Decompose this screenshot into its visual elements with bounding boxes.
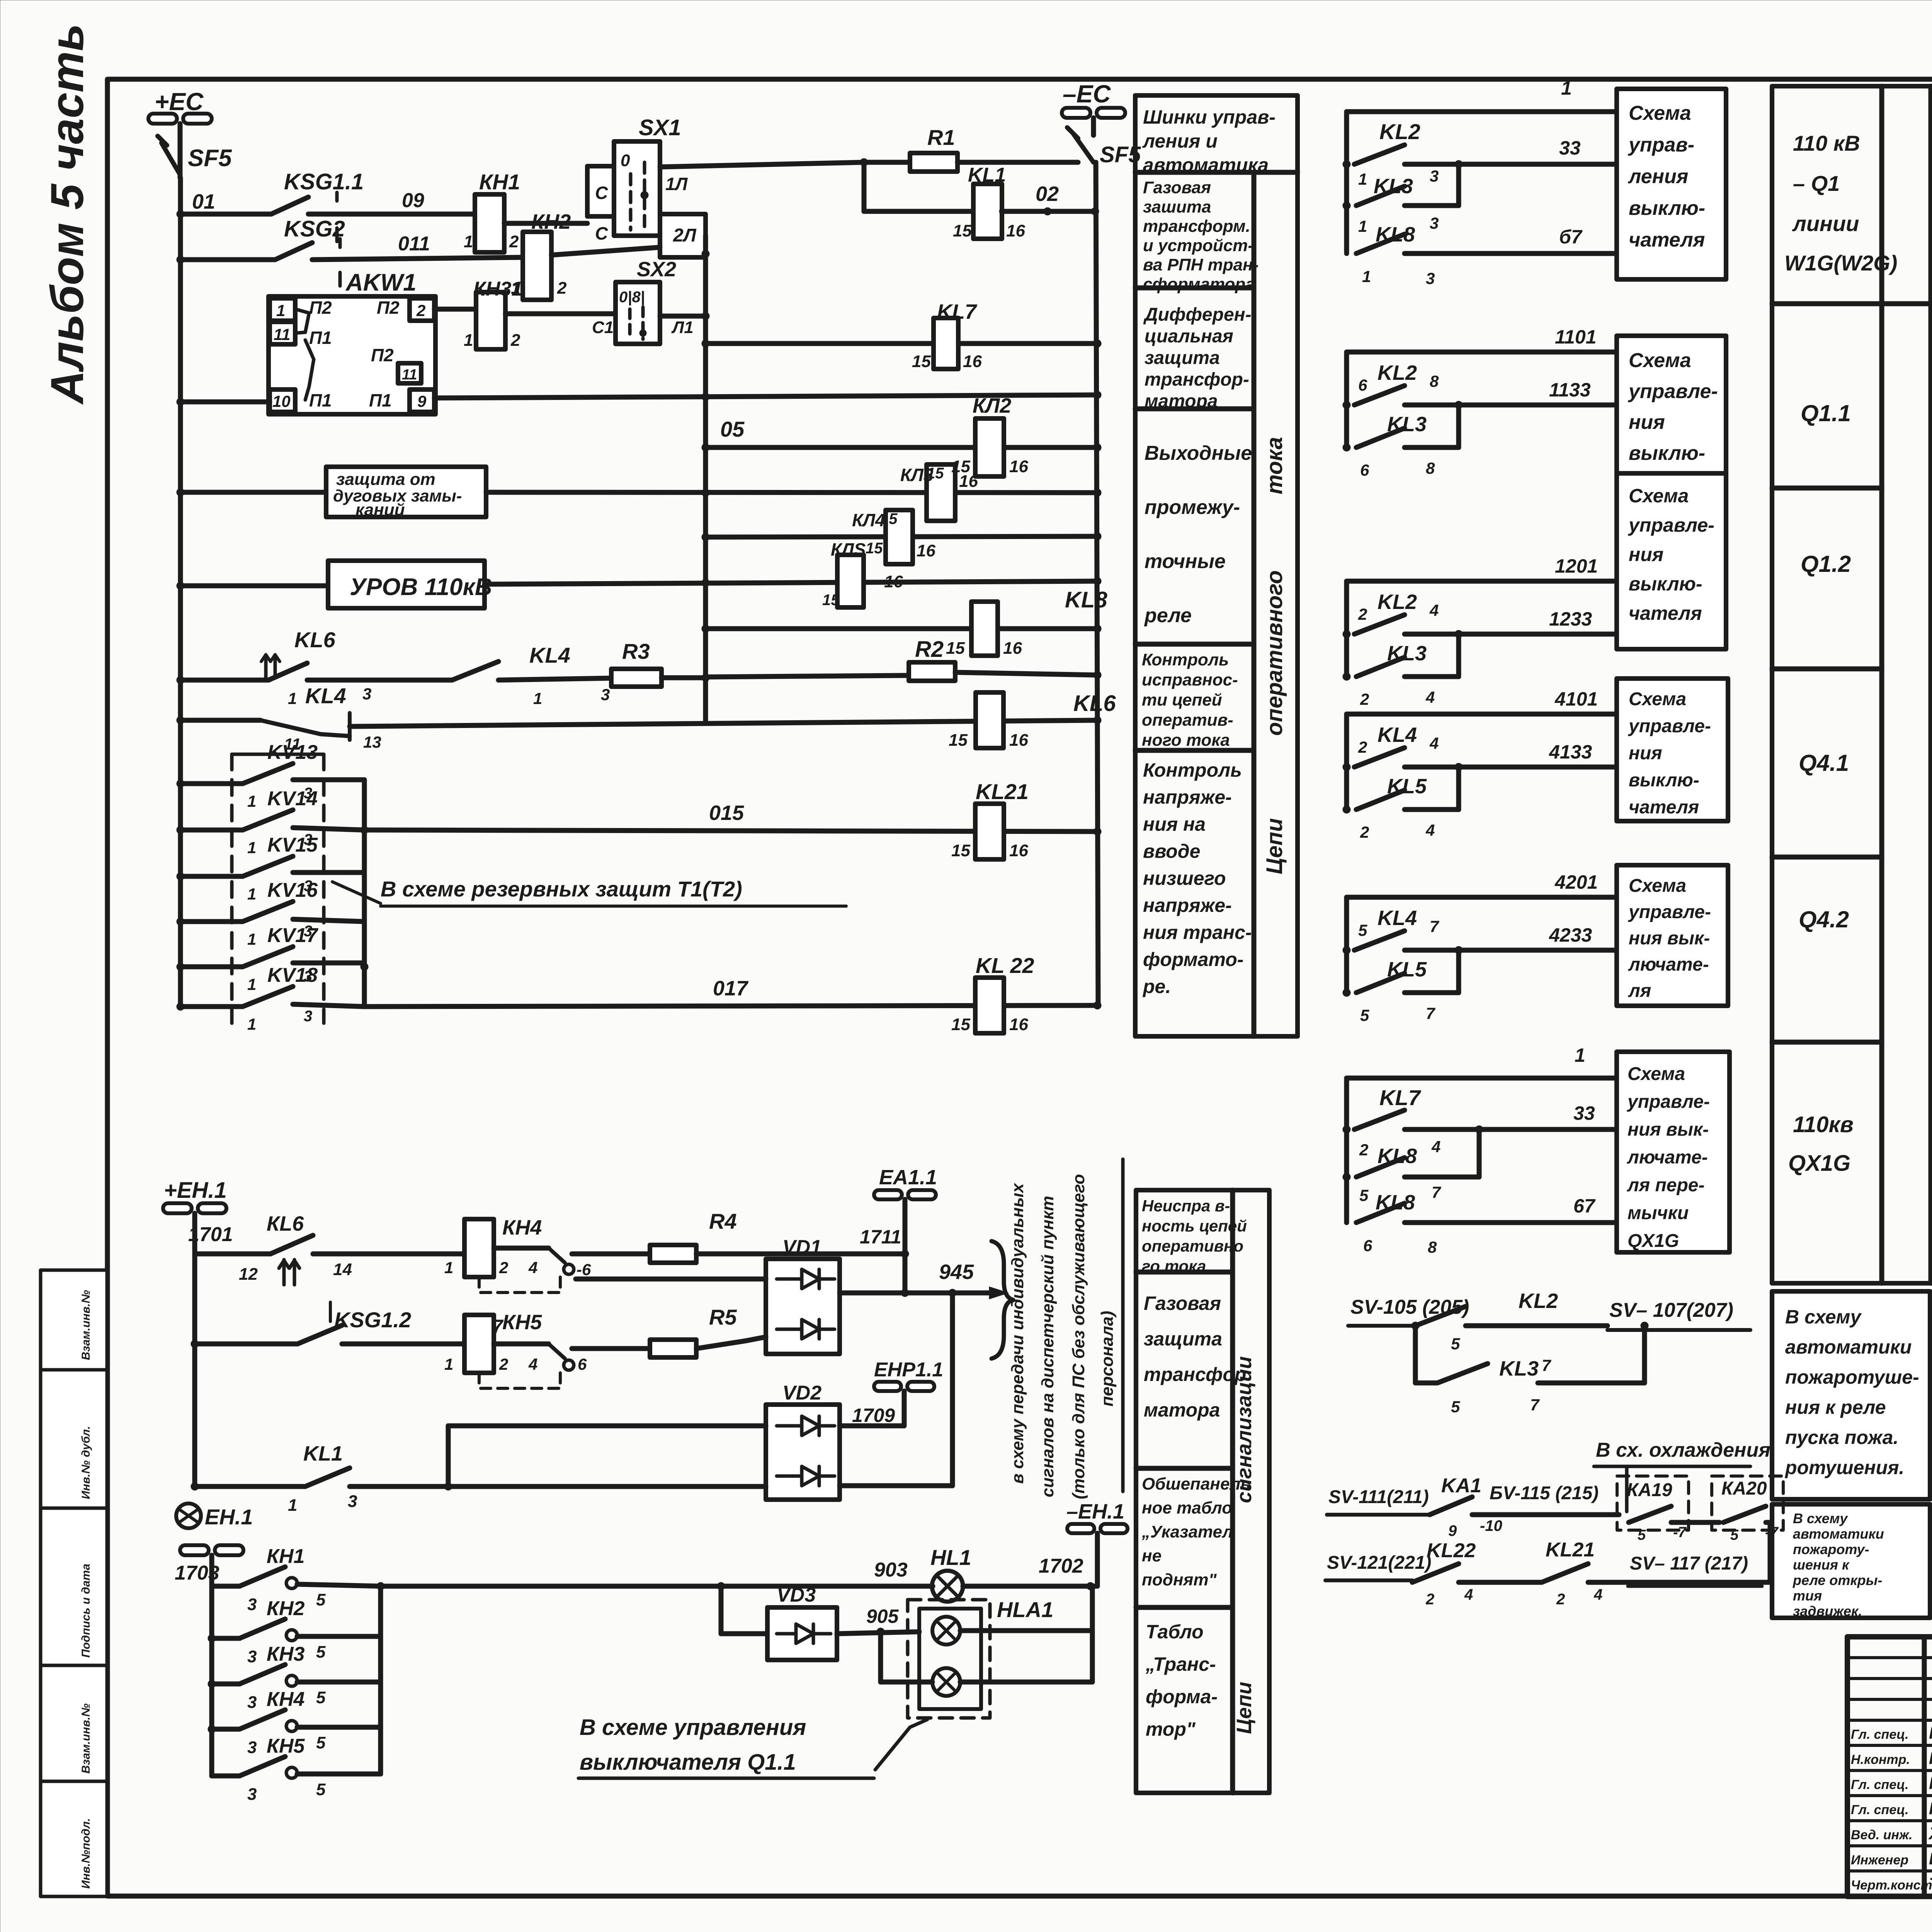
relay coil KL22 bbox=[951, 978, 1028, 1034]
junction rowC bbox=[191, 1340, 199, 1348]
wire row KL6b a bbox=[195, 1252, 270, 1257]
wire VD2 in lower bbox=[448, 1426, 766, 1486]
label 1101 bbox=[1555, 326, 1597, 348]
junction KL4row bus bbox=[702, 533, 709, 541]
wire VD3 drop bbox=[719, 1586, 724, 1634]
svg-text:матора: матора bbox=[1144, 1399, 1220, 1421]
column S cell2 bbox=[1144, 1293, 1246, 1421]
AKW1 terminal 11b bbox=[398, 363, 421, 383]
wire KH31-SX2 bbox=[505, 311, 616, 316]
wire AKW1 out 9 bbox=[434, 395, 1097, 398]
svg-text:Табло: Табло bbox=[1146, 1621, 1204, 1643]
svg-text:Q4.1: Q4.1 bbox=[1799, 750, 1849, 776]
svg-text:Л1: Л1 bbox=[671, 318, 694, 337]
wire row7 c bbox=[498, 678, 611, 680]
svg-text:33: 33 bbox=[1559, 137, 1581, 159]
svg-text:15: 15 bbox=[866, 540, 883, 557]
svg-text:КН1: КН1 bbox=[267, 1545, 304, 1568]
svg-text:11: 11 bbox=[402, 367, 417, 383]
svg-text:KSG1.2: KSG1.2 bbox=[334, 1308, 411, 1332]
junction KL4c rail bbox=[1094, 532, 1101, 540]
svg-text:KL7: KL7 bbox=[937, 300, 978, 323]
svg-text:матора: матора bbox=[1145, 391, 1218, 412]
svg-text:1: 1 bbox=[464, 331, 473, 350]
label SV-105 bbox=[1348, 1296, 1469, 1326]
wire +EC stem bbox=[178, 124, 183, 144]
block защита от дуговых bbox=[326, 467, 486, 519]
svg-text:KL 22: KL 22 bbox=[976, 953, 1034, 978]
pins КН4 b bbox=[247, 1733, 326, 1757]
bus EHP1.1 label bbox=[874, 1359, 943, 1381]
junction 01 bbox=[177, 210, 184, 218]
svg-text:ля пере-: ля пере- bbox=[1627, 1175, 1704, 1196]
svg-text:3: 3 bbox=[304, 1008, 312, 1025]
pins KV15 bbox=[247, 878, 312, 903]
wire EA drop bbox=[903, 1254, 908, 1293]
block SX1 bbox=[614, 141, 660, 236]
label 011 bbox=[398, 233, 430, 255]
wire mid bus bbox=[703, 316, 708, 720]
pins KL6 bbox=[288, 685, 371, 707]
label KL8 g6a bbox=[1378, 1145, 1417, 1168]
junction row8 bbox=[177, 716, 184, 724]
svg-text:тока: тока bbox=[1262, 437, 1287, 495]
leader охлаждения bbox=[1625, 1468, 1629, 1512]
svg-text:5: 5 bbox=[1451, 1335, 1460, 1353]
svg-text:П1: П1 bbox=[309, 390, 332, 410]
svg-text:KL21: KL21 bbox=[976, 779, 1029, 804]
wire 1 bbox=[1347, 77, 1617, 112]
wire 1233 bbox=[1405, 632, 1617, 637]
label KL1 bbox=[968, 164, 1006, 186]
bus -EH.1 bars bbox=[1067, 1524, 1128, 1533]
label C1 bbox=[592, 318, 614, 337]
svg-text:КН2: КН2 bbox=[267, 1597, 305, 1620]
wire row HL1 bbox=[381, 1584, 721, 1589]
svg-text:16: 16 bbox=[963, 352, 982, 371]
wire rowC a bbox=[195, 1342, 298, 1347]
contact KSG1.1 bbox=[271, 192, 337, 241]
wire 011b bbox=[312, 257, 524, 260]
label KL8c bbox=[1065, 587, 1107, 612]
svg-text:4133: 4133 bbox=[1549, 741, 1592, 763]
column A outer box bbox=[1135, 95, 1298, 1036]
svg-text:форма-: форма- bbox=[1146, 1686, 1218, 1708]
label KH4 bbox=[502, 1216, 542, 1239]
svg-text:02: 02 bbox=[1036, 182, 1059, 206]
svg-text:Горелик: Горелик bbox=[1929, 1799, 1932, 1818]
svg-text:ва РПН тран-: ва РПН тран- bbox=[1143, 255, 1259, 274]
pins КН5 b bbox=[247, 1780, 326, 1804]
relay coil KH5 bbox=[464, 1315, 494, 1373]
wire row KV18 bbox=[180, 1004, 243, 1009]
svg-text:-7: -7 bbox=[1673, 1524, 1687, 1541]
wire row KL8c bbox=[706, 626, 1097, 631]
wire row7 d bbox=[706, 675, 909, 677]
svg-text:КН4: КН4 bbox=[267, 1688, 305, 1711]
svg-text:ЕА1.1: ЕА1.1 bbox=[879, 1166, 937, 1189]
svg-text:зашита: зашита bbox=[1143, 197, 1211, 216]
pins KL1 b bbox=[288, 1492, 357, 1515]
svg-text:4: 4 bbox=[1429, 601, 1439, 619]
svg-text:4: 4 bbox=[1425, 821, 1435, 839]
wire KHb collector bbox=[378, 1586, 383, 1774]
bus +EC label bbox=[155, 88, 204, 116]
label KH5 bbox=[502, 1311, 542, 1334]
svg-text:ЕНР1.1: ЕНР1.1 bbox=[874, 1359, 943, 1381]
label 905 bbox=[866, 1605, 899, 1627]
wire left rail bbox=[178, 178, 183, 1007]
column S row 1 bbox=[1136, 1270, 1233, 1275]
box Схема управления 2 bbox=[1617, 336, 1726, 524]
relay coil KL4c bbox=[852, 510, 935, 564]
svg-text:9: 9 bbox=[1448, 1522, 1457, 1539]
label VD3 bbox=[777, 1584, 816, 1606]
pins KA1 bbox=[1448, 1517, 1502, 1539]
label KL3 sv bbox=[1499, 1356, 1551, 1380]
svg-text:циальная: циальная bbox=[1145, 326, 1233, 347]
svg-text:лючате-: лючате- bbox=[1627, 1147, 1708, 1168]
label 09 bbox=[402, 189, 424, 212]
svg-text:В схему: В схему bbox=[1793, 1510, 1848, 1526]
wire row KV15 bbox=[180, 874, 243, 879]
svg-text:КН3: КН3 bbox=[267, 1643, 305, 1665]
relay coil KH1 bbox=[464, 194, 519, 252]
title block outer bbox=[1847, 1637, 1932, 1896]
svg-text:Цепи: Цепи bbox=[1233, 1682, 1256, 1734]
pins KH5 bbox=[444, 1355, 537, 1373]
junction row4 bbox=[177, 398, 184, 406]
svg-text:7: 7 bbox=[1530, 1396, 1540, 1414]
column S cell1 bbox=[1142, 1197, 1247, 1275]
diode block VD2 bbox=[766, 1405, 840, 1500]
label SX2 bbox=[637, 258, 676, 281]
svg-text:ти цепей: ти цепей bbox=[1142, 690, 1222, 709]
junction row6 bbox=[177, 582, 184, 590]
column S cell4 bbox=[1145, 1621, 1218, 1740]
svg-text:Q1.2: Q1.2 bbox=[1801, 551, 1851, 577]
svg-text:R5: R5 bbox=[709, 1305, 737, 1329]
svg-text:9: 9 bbox=[417, 392, 427, 410]
label 1L bbox=[665, 174, 688, 194]
pins KL5 bbox=[1358, 917, 1439, 1024]
bus -EC bars bbox=[1062, 108, 1125, 118]
svg-text:-10: -10 bbox=[1480, 1517, 1502, 1534]
svg-text:Альбом 5 часть: Альбом 5 часть bbox=[41, 24, 93, 405]
relay coil KL8c bbox=[946, 602, 1022, 658]
junction KV17 bbox=[177, 963, 184, 971]
label KV16 bbox=[267, 879, 318, 901]
wire EH1 stem bbox=[192, 1213, 197, 1254]
svg-text:1: 1 bbox=[444, 1259, 453, 1277]
svg-text:автоматики: автоматики bbox=[1785, 1336, 1912, 1358]
svg-text:KL7: KL7 bbox=[1379, 1085, 1422, 1110]
svg-text:КЛS: КЛS bbox=[831, 539, 866, 560]
bus EA1.1 bars bbox=[874, 1190, 936, 1199]
svg-text:2: 2 bbox=[1425, 1591, 1434, 1608]
svg-text:R3: R3 bbox=[622, 639, 650, 663]
svg-text:БV-115 (215): БV-115 (215) bbox=[1490, 1483, 1599, 1503]
breaker SF5 bbox=[158, 136, 180, 178]
contact KA19 bbox=[1629, 1506, 1719, 1522]
svg-text:–ЕН.1: –ЕН.1 bbox=[1066, 1500, 1124, 1523]
wire row AKW1 bottom bbox=[180, 400, 270, 405]
wire row KL4c bbox=[706, 536, 1097, 537]
svg-text:7: 7 bbox=[1426, 1004, 1435, 1022]
junction bus KL7 bbox=[702, 340, 709, 347]
svg-text:+EC: +EC bbox=[155, 88, 204, 116]
svg-text:Взам.инв.№: Взам.инв.№ bbox=[80, 1704, 92, 1774]
wire BV-115 bbox=[1472, 1512, 1619, 1517]
label 01 bbox=[192, 190, 215, 213]
svg-text:KL4: KL4 bbox=[1378, 906, 1417, 930]
pins КН1 b bbox=[247, 1590, 326, 1614]
svg-text:чателя: чателя bbox=[1629, 602, 1702, 624]
aux contact KH4 bbox=[479, 1248, 591, 1293]
label KA20 bbox=[1721, 1478, 1767, 1499]
chain bracket bbox=[1344, 352, 1349, 447]
junction rowD bbox=[444, 1483, 452, 1490]
junction 2L bbox=[702, 250, 709, 258]
svg-text:67: 67 bbox=[1573, 1195, 1596, 1217]
svg-text:1Л: 1Л bbox=[665, 174, 688, 194]
contact КН4 b bbox=[212, 1710, 381, 1731]
box KA20 dashed bbox=[1712, 1476, 1783, 1530]
svg-text:5: 5 bbox=[316, 1780, 326, 1799]
junction 945 bbox=[901, 1289, 909, 1297]
svg-text:5: 5 bbox=[1638, 1527, 1646, 1543]
svg-text:KL6: KL6 bbox=[294, 628, 336, 652]
wire row KV17 bbox=[180, 964, 243, 969]
svg-text:2: 2 bbox=[1360, 823, 1369, 841]
svg-text:017: 017 bbox=[713, 977, 749, 1000]
column A divider bbox=[1252, 172, 1257, 1036]
svg-text:1: 1 bbox=[1362, 267, 1371, 286]
junction 02 rail bbox=[1091, 207, 1099, 215]
svg-text:П1: П1 bbox=[309, 328, 332, 348]
svg-text:KV15: KV15 bbox=[267, 834, 318, 856]
svg-text:КА19: КА19 bbox=[1627, 1480, 1672, 1500]
resistor R2 bbox=[909, 662, 1097, 681]
wire KV collector bbox=[362, 830, 367, 1007]
svg-text:трансфор-: трансфор- bbox=[1145, 369, 1249, 390]
label SV-111 bbox=[1327, 1487, 1430, 1515]
wire KA drop bbox=[1768, 1522, 1773, 1582]
svg-text:4: 4 bbox=[528, 1259, 537, 1277]
contact KL4 bbox=[1343, 748, 1405, 771]
wire 67 g1 bbox=[1405, 226, 1617, 253]
svg-text:VD2: VD2 bbox=[782, 1382, 821, 1404]
svg-text:КН31: КН31 bbox=[473, 278, 522, 300]
Q cell Q4.2 bbox=[1799, 906, 1849, 932]
label KL21 bbox=[976, 779, 1029, 804]
svg-text:1: 1 bbox=[288, 1496, 297, 1515]
junction KL3c rail bbox=[1094, 489, 1101, 497]
svg-text:3: 3 bbox=[247, 1738, 257, 1757]
contact KL3 bbox=[1343, 428, 1459, 451]
wire 33 g1 bbox=[1405, 137, 1617, 164]
relay coil KL5c bbox=[822, 539, 903, 609]
svg-text:1: 1 bbox=[1561, 77, 1572, 99]
svg-text:Дифферен-: Дифферен- bbox=[1143, 304, 1252, 325]
junction 905 bbox=[877, 1628, 884, 1636]
svg-text:Гл. спец.: Гл. спец. bbox=[1851, 1727, 1909, 1742]
svg-text:реле: реле bbox=[1144, 604, 1192, 627]
svg-text:5: 5 bbox=[316, 1733, 326, 1752]
junction R2 rail bbox=[1094, 671, 1101, 679]
label KH1 bbox=[479, 170, 520, 194]
label KL6 bbox=[294, 628, 336, 652]
svg-text:8: 8 bbox=[1428, 1238, 1437, 1256]
breaker SF5 right bbox=[1067, 118, 1094, 162]
column A vtext тока bbox=[1262, 437, 1287, 495]
wire row 01 bbox=[180, 212, 271, 217]
svg-text:KL8: KL8 bbox=[1065, 587, 1107, 612]
svg-text:ния: ния bbox=[1629, 743, 1662, 764]
junction KV col a bbox=[361, 826, 368, 834]
junction AKW1 rail bbox=[1094, 391, 1101, 399]
label KL2 g1 bbox=[1379, 119, 1420, 144]
svg-text:3: 3 bbox=[1426, 269, 1435, 287]
label КН2 b bbox=[267, 1597, 305, 1620]
wire KHb rail bbox=[209, 1586, 214, 1776]
pins KV13 bbox=[247, 785, 312, 810]
svg-text:промежу-: промежу- bbox=[1145, 496, 1240, 519]
svg-text:2Л: 2Л bbox=[673, 225, 697, 246]
svg-text:05: 05 bbox=[720, 417, 745, 441]
svg-text:14: 14 bbox=[333, 1260, 352, 1279]
svg-text:3: 3 bbox=[1430, 167, 1439, 185]
svg-text:КН5: КН5 bbox=[267, 1735, 305, 1757]
lamp HL1 bbox=[932, 1571, 963, 1602]
svg-text:KL21: KL21 bbox=[1546, 1539, 1595, 1561]
pins KL3 g1 bbox=[1358, 167, 1439, 188]
margin stamp box 5 bbox=[41, 1781, 107, 1896]
svg-text:5: 5 bbox=[316, 1688, 326, 1707]
annotation brace bbox=[992, 1241, 1013, 1359]
column A row line 4 bbox=[1135, 642, 1254, 647]
svg-text:П2: П2 bbox=[377, 298, 400, 318]
annotation text 4 bbox=[1098, 1311, 1117, 1406]
junction R1 branch bbox=[860, 158, 868, 166]
wire row 015 bbox=[364, 830, 1097, 832]
label KL5 bbox=[1387, 775, 1427, 798]
svg-text:В схеме резервных защит Т1(Т2): В схеме резервных защит Т1(Т2) bbox=[381, 877, 742, 901]
svg-text:КН4: КН4 bbox=[502, 1216, 542, 1239]
junction g1 bbox=[1455, 160, 1463, 168]
svg-text:16: 16 bbox=[1009, 731, 1028, 750]
wire row KV14 bbox=[180, 828, 243, 833]
wire row KV13 bbox=[180, 781, 243, 786]
column A cell3 text bbox=[1144, 442, 1252, 627]
Q vtext Цепи bbox=[1929, 1116, 1932, 1175]
svg-text:KL3: KL3 bbox=[1387, 413, 1427, 436]
label R5 bbox=[709, 1305, 737, 1329]
svg-text:низшего: низшего bbox=[1143, 867, 1226, 889]
title block verticals left bbox=[1924, 1637, 1932, 1896]
junction KL2c rail bbox=[1094, 444, 1101, 451]
wire right rail bbox=[1096, 162, 1098, 1007]
wire row KL6b b bbox=[313, 1252, 465, 1257]
svg-text:1: 1 bbox=[288, 689, 297, 707]
junction KV15 bbox=[177, 872, 184, 880]
wire HL1 b bbox=[721, 1584, 933, 1589]
svg-text:C: C bbox=[595, 223, 608, 243]
svg-text:KL1: KL1 bbox=[968, 164, 1006, 186]
svg-text:ления и: ления и bbox=[1142, 130, 1218, 152]
svg-text:12: 12 bbox=[239, 1265, 258, 1284]
svg-text:Цепи: Цепи bbox=[1929, 1116, 1932, 1175]
svg-text:каний: каний bbox=[355, 500, 405, 519]
junction row2 bbox=[177, 256, 184, 264]
svg-text:5: 5 bbox=[316, 1643, 326, 1662]
svg-text:8: 8 bbox=[1426, 459, 1435, 477]
margin stamp box 4 bbox=[41, 1665, 107, 1781]
svg-text:01: 01 bbox=[192, 190, 215, 213]
svg-text:ния: ния bbox=[1629, 544, 1663, 565]
chain bracket bbox=[1344, 581, 1349, 677]
column S vtext2 bbox=[1233, 1682, 1256, 1734]
svg-text:в схему передачи индивидуальны: в схему передачи индивидуальных bbox=[1008, 1183, 1027, 1484]
svg-text:8: 8 bbox=[1430, 372, 1439, 390]
label KSG1.2 bbox=[334, 1308, 411, 1332]
contact КН2 b bbox=[212, 1619, 381, 1641]
wire row7 b bbox=[307, 678, 452, 683]
bus EA1.1 label bbox=[879, 1166, 937, 1189]
svg-text:Неиспра в-: Неиспра в- bbox=[1142, 1197, 1230, 1215]
relay coil KH2 bbox=[511, 232, 567, 300]
label KL4 row7 bbox=[529, 643, 570, 667]
contact КН3 b bbox=[212, 1665, 381, 1686]
AKW1 terminal 9 bbox=[410, 389, 434, 412]
margin stamp box 2 bbox=[41, 1370, 107, 1508]
svg-text:15: 15 bbox=[951, 457, 970, 476]
box пожаротушения 2 bbox=[1772, 1504, 1930, 1619]
svg-text:0|8|: 0|8| bbox=[619, 289, 645, 306]
svg-text:SX1: SX1 bbox=[639, 115, 681, 140]
svg-text:мычки: мычки bbox=[1628, 1203, 1689, 1223]
svg-text:Схема: Схема bbox=[1629, 349, 1691, 372]
note управления Q1.1 bbox=[578, 1715, 874, 1778]
Q vtext отключения bbox=[1930, 857, 1932, 1029]
box KA19 dashed bbox=[1617, 1476, 1689, 1530]
junction KHb col bbox=[377, 1582, 384, 1590]
wire HL1 c bbox=[963, 1584, 1090, 1589]
wire row8 b bbox=[350, 720, 1097, 726]
svg-text:(только для ПС без обслуживающ: (только для ПС без обслуживающего bbox=[1069, 1174, 1088, 1499]
junction KV18 bbox=[177, 1003, 184, 1010]
svg-text:оперативного: оперативного bbox=[1262, 570, 1287, 736]
relay coil KH31 bbox=[464, 292, 520, 350]
svg-text:1: 1 bbox=[247, 838, 256, 857]
svg-text:1: 1 bbox=[247, 1015, 256, 1033]
label KV13 bbox=[267, 741, 318, 764]
svg-text:C1: C1 bbox=[592, 318, 614, 337]
junction sub bbox=[1455, 763, 1463, 771]
label KL7c bbox=[937, 300, 978, 323]
svg-text:Схема: Схема bbox=[1629, 102, 1691, 124]
svg-text:3: 3 bbox=[247, 1693, 257, 1712]
contact KL3 sv bbox=[1415, 1364, 1645, 1383]
svg-text:управле-: управле- bbox=[1628, 716, 1711, 736]
wire SX2 out bbox=[660, 314, 706, 319]
svg-text:2: 2 bbox=[416, 301, 425, 320]
svg-text:напряже-: напряже- bbox=[1143, 786, 1232, 808]
svg-text:КА20: КА20 bbox=[1721, 1478, 1767, 1499]
wire KH1-SX1 bbox=[504, 221, 587, 226]
svg-text:напряже-: напряже- bbox=[1143, 895, 1232, 916]
svg-text:– Q1: – Q1 bbox=[1793, 171, 1840, 196]
